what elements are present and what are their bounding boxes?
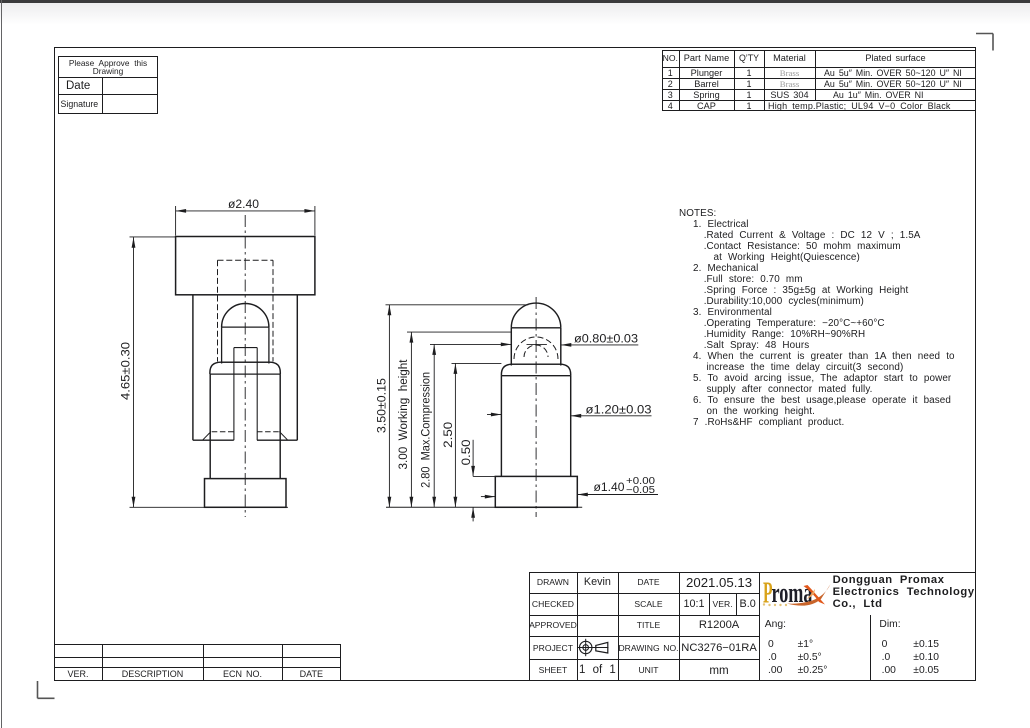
scan top gradient xyxy=(0,3,1030,25)
plunger dome base line (right view) xyxy=(511,327,561,329)
parts row 4 CAP xyxy=(662,100,680,111)
base flange (right view) xyxy=(495,476,577,507)
svg-text:ø1.20±0.03: ø1.20±0.03 xyxy=(586,402,652,416)
dimension ø1.40 +0.00/-0.05 xyxy=(481,476,658,499)
plunger wall right (left view) xyxy=(268,327,270,363)
parts table header row xyxy=(662,50,680,67)
plunger wall right (right view) xyxy=(560,328,562,366)
plunger stem (left view) xyxy=(234,348,257,441)
base flange (left view) xyxy=(205,479,287,508)
Ang tolerances xyxy=(765,619,786,630)
center line (right view) xyxy=(535,297,537,517)
barrel shoulder bottom line (right view) xyxy=(501,375,570,377)
title block labels column xyxy=(529,572,577,594)
plunger dome base line (left view) xyxy=(222,326,269,328)
barrel wall left (left view) xyxy=(209,374,211,479)
plunger dome (left view) xyxy=(222,303,269,327)
Dim tolerances xyxy=(879,619,900,630)
barrel shoulder top line (left view) xyxy=(222,361,269,363)
cap skirt bottom edge right xyxy=(257,439,297,441)
notes text xyxy=(679,208,716,219)
plunger wall left (left view) xyxy=(221,327,223,363)
parts row 2 Barrel xyxy=(662,78,680,89)
hidden spring seat outer arc xyxy=(514,337,558,359)
hidden cap bore top xyxy=(218,259,274,261)
cap skirt left wall xyxy=(192,295,194,440)
drawn by Kevin xyxy=(577,572,619,594)
approval box xyxy=(58,56,158,114)
sheet 1 of 1 xyxy=(577,659,619,681)
cap skirt right wall xyxy=(296,295,298,440)
cap skirt bottom edge left xyxy=(193,439,234,441)
date value xyxy=(679,572,760,594)
Date label xyxy=(66,80,90,92)
center line (left view) xyxy=(244,215,246,517)
barrel shoulder top line (right view) xyxy=(511,363,561,365)
plunger wall left (right view) xyxy=(510,328,512,366)
scan top dark edge xyxy=(0,0,1030,3)
cap skirt chamfer left xyxy=(203,432,212,441)
svg-text:4.65±0.30: 4.65±0.30 xyxy=(118,342,132,400)
approval box header separator xyxy=(58,77,158,78)
main drawing frame xyxy=(54,47,976,681)
plunger dome (right view) xyxy=(511,303,561,328)
center mark horizontal tick (right view) xyxy=(527,343,547,345)
parts row 3 Spring xyxy=(662,89,680,100)
barrel shoulder (left view) xyxy=(210,362,280,374)
barrel shoulder bottom line (left view) xyxy=(210,373,280,375)
dimension ø0.80±0.03 xyxy=(430,331,638,346)
bottom extension line (right view) xyxy=(386,506,582,508)
drawing no NC3276-01RA xyxy=(679,636,760,659)
dimension 0.50 xyxy=(459,439,495,521)
svg-text:3.50±0.15: 3.50±0.15 xyxy=(374,378,388,433)
approval box column divider xyxy=(102,77,103,113)
hidden cap bore right wall xyxy=(272,260,274,361)
parts table xyxy=(662,50,977,111)
unit mm xyxy=(679,659,760,681)
parts row 1 Plunger xyxy=(662,67,680,78)
approval box row separator xyxy=(58,94,158,95)
company name xyxy=(833,574,975,611)
barrel wall left (right view) xyxy=(500,376,502,477)
Promax logo xyxy=(759,572,839,615)
svg-text:2.50: 2.50 xyxy=(441,422,455,448)
title block xyxy=(529,572,976,682)
barrel wall right (left view) xyxy=(279,374,281,479)
scan left edge line xyxy=(1,0,2,728)
Signature label xyxy=(61,99,99,109)
cap (left view outer block) xyxy=(176,237,315,295)
dimension 3.00 Working height xyxy=(396,332,512,507)
hidden cap bore left wall xyxy=(217,260,219,361)
svg-text:ø1.40: ø1.40 xyxy=(594,480,625,494)
hidden spring seat inner arc xyxy=(524,345,548,357)
svg-text:−0.05: −0.05 xyxy=(626,485,656,496)
svg-text:3.00 Working height: 3.00 Working height xyxy=(396,359,410,470)
svg-text:ø2.40: ø2.40 xyxy=(228,197,259,211)
barrel shoulder (right view) xyxy=(501,364,570,376)
dimension 2.80 Max.Compression xyxy=(418,344,436,507)
svg-text:ø0.80±0.03: ø0.80±0.03 xyxy=(574,331,638,345)
tolerance divider xyxy=(870,615,871,682)
svg-text:0.50: 0.50 xyxy=(459,439,473,465)
hidden line skirt inner right xyxy=(257,431,279,433)
crop mark top-right xyxy=(976,34,993,51)
title value R1200A xyxy=(679,615,760,637)
dimension ø2.40 xyxy=(176,197,315,235)
date/scale/title/drawing labels xyxy=(618,572,679,594)
svg-text:2.80 Max.Compression: 2.80 Max.Compression xyxy=(418,372,432,488)
dimension 3.50±0.15 xyxy=(374,305,528,508)
dimension 4.65±0.30 xyxy=(118,237,288,507)
revision table xyxy=(54,644,341,681)
approval header text xyxy=(59,59,157,76)
scale row: 10:1 VER. B.0 xyxy=(709,593,710,615)
dimension 2.50 xyxy=(441,363,501,507)
dimension ø1.20±0.03 xyxy=(487,402,652,417)
cap skirt chamfer right xyxy=(279,432,288,441)
third angle projection symbol xyxy=(577,636,619,659)
hidden line skirt inner left xyxy=(212,431,234,433)
crop mark bottom-left xyxy=(38,681,55,698)
barrel wall right (right view) xyxy=(570,376,572,477)
